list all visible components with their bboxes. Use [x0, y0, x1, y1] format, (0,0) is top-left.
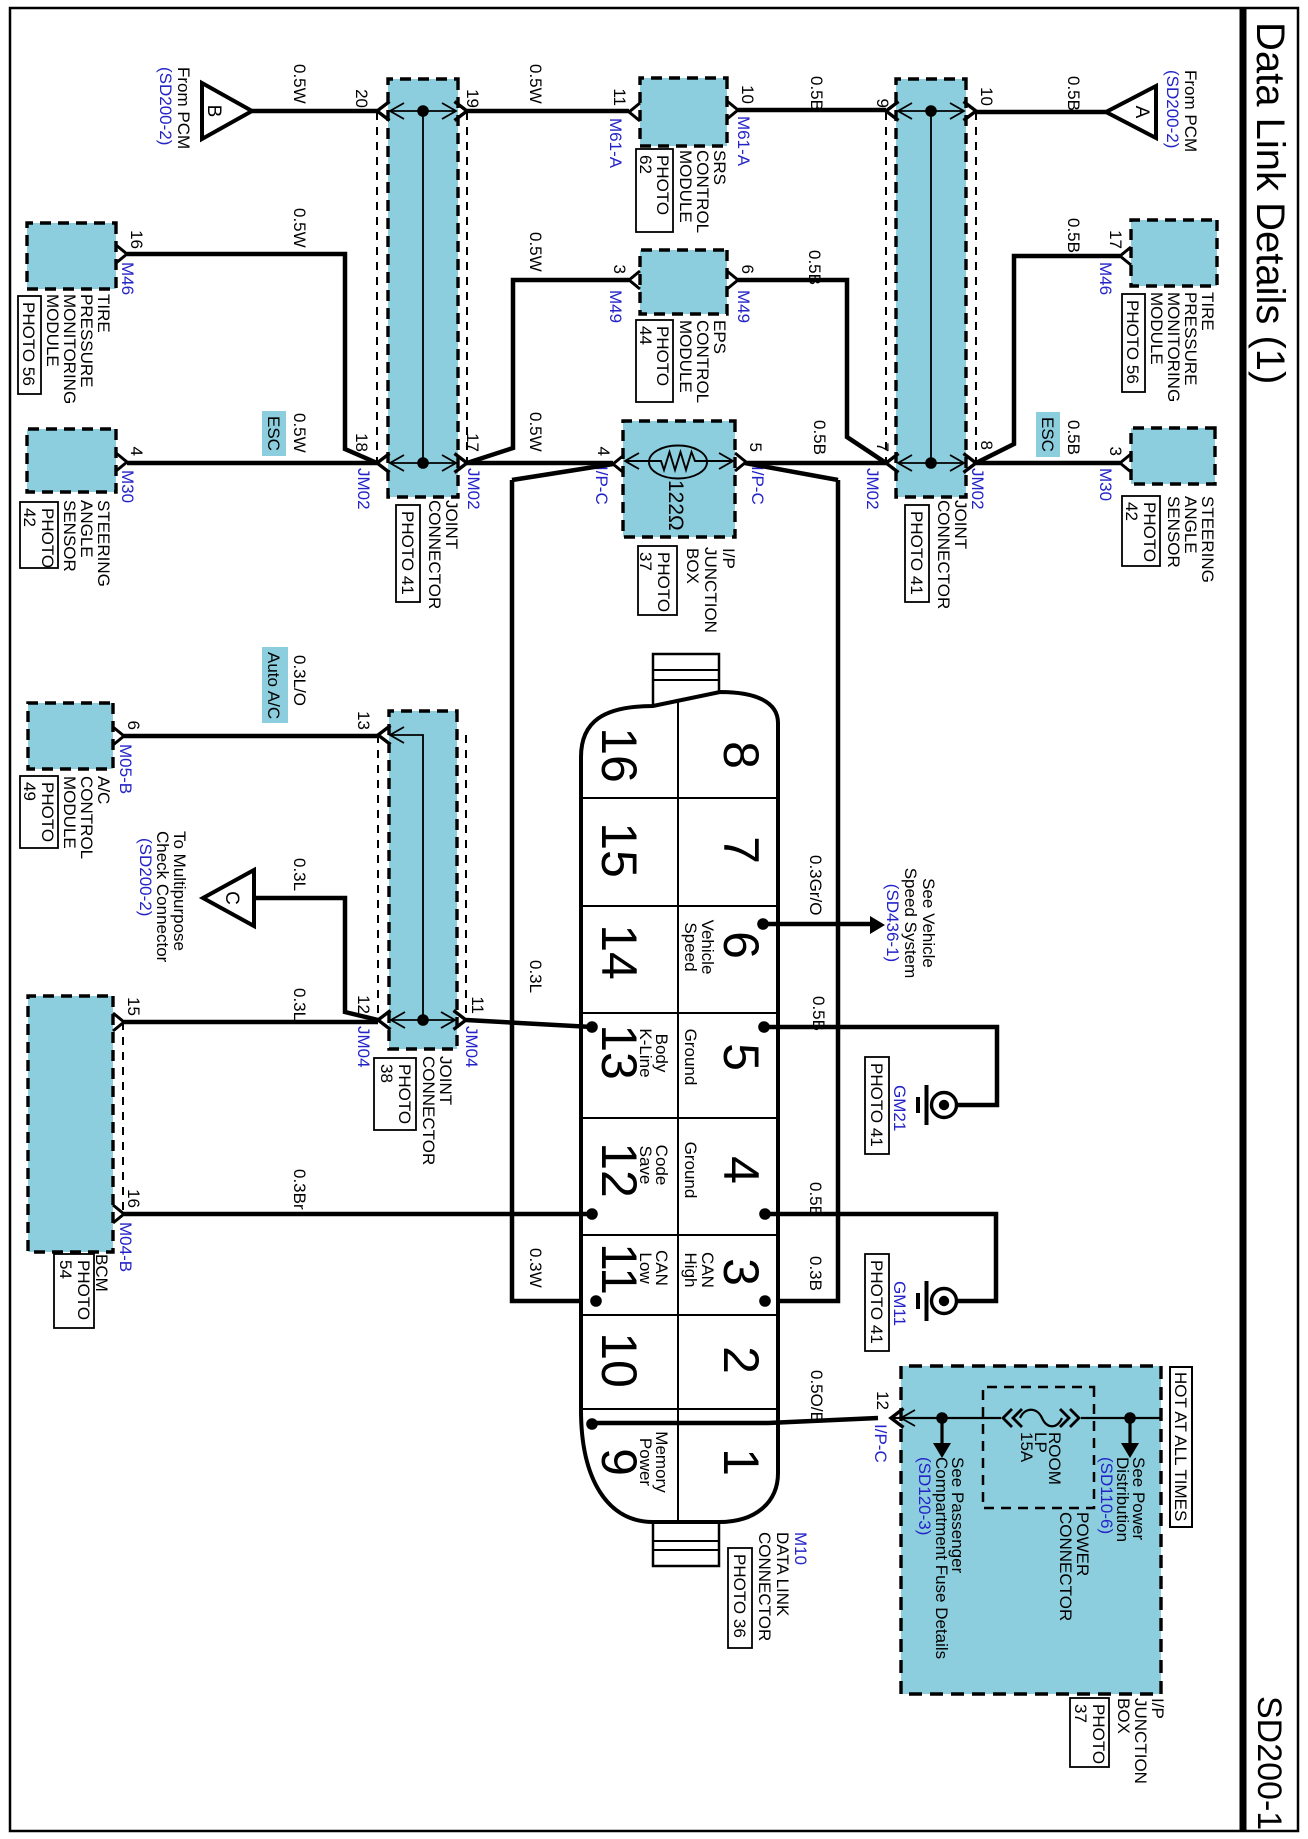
node power dot 2: [1124, 1412, 1136, 1424]
svg-text:0.5W: 0.5W: [526, 232, 545, 272]
wire I/P-C pin 5 to CAN high run: [745, 463, 838, 480]
wire JM02 pin 17 to I/P-C pin 4: [467, 461, 613, 466]
svg-text:Save: Save: [636, 1146, 655, 1185]
wire BCM pin 15 to JM04 pin 12: [124, 1020, 378, 1025]
svg-text:0.5B: 0.5B: [806, 1182, 825, 1217]
JM02 left pin 19 chevron: [455, 102, 468, 121]
svg-text:DATA LINK: DATA LINK: [773, 1532, 792, 1617]
svg-text:JM02: JM02: [464, 468, 483, 510]
svg-text:9: 9: [873, 99, 892, 108]
node power dot 1: [936, 1412, 948, 1424]
svg-text:SENSOR: SENSOR: [1164, 496, 1183, 568]
svg-text:Data Link Details (1): Data Link Details (1): [1248, 22, 1292, 384]
JM02 left junction dot (pins 18/17): [417, 457, 429, 469]
JM02 left pin 20 chevron: [377, 102, 390, 121]
data link connector M10 right tab: [653, 1518, 719, 1566]
fuse chevron marks lower: [1003, 1409, 1012, 1427]
svg-text:C: C: [221, 891, 242, 905]
svg-text:17: 17: [1106, 230, 1125, 249]
module M05-B A/C control module: [28, 703, 113, 769]
svg-text:0.3L: 0.3L: [526, 960, 545, 993]
svg-text:42: 42: [1122, 502, 1141, 521]
wire I/P-C pin 4 to CAN low run: [512, 464, 613, 480]
svg-text:CONNECTOR: CONNECTOR: [425, 500, 444, 609]
joint connector JM02 (right) outer dashed lines: [975, 112, 977, 463]
svg-text:6: 6: [124, 721, 143, 730]
node pin 5 dot: [758, 1021, 770, 1033]
wire CAN high bus run: [765, 480, 838, 1301]
svg-text:18: 18: [352, 433, 371, 452]
JM02 right pin 7 chevron: [886, 454, 899, 473]
M46 right pin 17 chevron: [1120, 247, 1131, 265]
wire JM04 pin 11 to M10 pin 13: [466, 1020, 592, 1027]
label PHOTO 49 box: [20, 776, 58, 848]
svg-text:M46: M46: [1096, 262, 1115, 295]
label PHOTO 56 box (left): [18, 296, 41, 394]
svg-text:M10: M10: [791, 1532, 810, 1565]
JM02 left junction dot (pins 20/19): [417, 105, 429, 117]
svg-text:PHOTO 56: PHOTO 56: [19, 302, 38, 386]
node pin 6 dot: [757, 918, 769, 930]
svg-text:GM21: GM21: [890, 1085, 909, 1131]
svg-text:0.5W: 0.5W: [526, 412, 545, 452]
ground GM11 symbol: [932, 1289, 957, 1314]
fuse box dashed rect: [983, 1387, 1094, 1508]
svg-text:37: 37: [1071, 1704, 1090, 1723]
svg-text:PHOTO: PHOTO: [38, 782, 57, 842]
data link connector M10 outline: [581, 692, 778, 1522]
svg-text:GM11: GM11: [890, 1281, 909, 1326]
wire memory power to I/P-C pin 12: [592, 1418, 878, 1423]
BCM pin 15 chevron: [113, 1013, 124, 1031]
JM04 pin 13 chevron: [378, 726, 391, 745]
fuse chevron marks upper: [1070, 1409, 1079, 1427]
joint connector JM02 (left) cyan bar: [388, 79, 458, 497]
svg-text:BOX: BOX: [683, 548, 702, 584]
module M04-B BCM: [28, 996, 113, 1252]
wire vehicle speed branch: [763, 922, 870, 927]
svg-text:M30: M30: [1096, 468, 1115, 501]
label PHOTO 56 box (right): [1122, 294, 1145, 392]
module M46 tire pressure monitoring (left): [27, 223, 116, 289]
M10 center divider: [677, 700, 679, 1522]
wire CAN low bus run: [512, 480, 596, 1301]
joint connector JM04 outer dashed lines: [465, 735, 467, 1020]
wire SRS pin 10 to JM02 right pin 9: [738, 108, 886, 113]
fuse element: [1020, 1410, 1062, 1427]
svg-text:2: 2: [713, 1346, 769, 1374]
svg-text:16: 16: [127, 230, 146, 249]
svg-text:1: 1: [713, 1448, 769, 1476]
svg-text:(SD120-3): (SD120-3): [915, 1457, 934, 1535]
svg-text:A: A: [1131, 106, 1152, 119]
svg-text:I/P-C: I/P-C: [748, 466, 767, 505]
SRS pin 10 chevron: [727, 101, 738, 119]
svg-text:From PCM: From PCM: [174, 67, 193, 149]
svg-text:JM02: JM02: [354, 468, 373, 510]
svg-text:PHOTO: PHOTO: [395, 1064, 414, 1124]
svg-text:14: 14: [591, 924, 647, 980]
svg-text:4: 4: [127, 447, 146, 456]
svg-text:3: 3: [610, 265, 629, 274]
wire BCM pin 16 to M10 pin 12: [124, 1212, 592, 1217]
svg-text:0.5O/B: 0.5O/B: [807, 1370, 826, 1423]
svg-text:0.5B: 0.5B: [805, 250, 824, 285]
node pin 12 dot: [586, 1208, 598, 1220]
svg-text:0.5W: 0.5W: [290, 208, 309, 248]
label PHOTO 36 box: [728, 1548, 752, 1648]
BCM pin 16 chevron: [113, 1205, 124, 1223]
svg-text:4: 4: [713, 1156, 769, 1184]
I/P-C pin 5 chevron: [735, 453, 746, 471]
svg-text:0.3B: 0.3B: [806, 1256, 825, 1291]
svg-text:(SD200-2): (SD200-2): [156, 67, 175, 145]
svg-text:0.5W: 0.5W: [290, 413, 309, 453]
svg-text:19: 19: [463, 89, 482, 108]
label PHOTO 41 box (GM21): [865, 1057, 889, 1154]
svg-text:MODULE: MODULE: [1147, 292, 1166, 365]
svg-text:Low: Low: [636, 1252, 655, 1284]
svg-text:I/P: I/P: [719, 548, 738, 569]
svg-text:PHOTO 41: PHOTO 41: [867, 1260, 886, 1344]
svg-text:6: 6: [738, 265, 757, 274]
svg-text:3: 3: [713, 1258, 769, 1286]
module M46 tire pressure monitoring (right): [1131, 220, 1217, 286]
svg-text:PHOTO 41: PHOTO 41: [398, 511, 417, 595]
resistor R 122 ohm ellipse: [649, 446, 707, 479]
joint connector JM02 (right) cyan bar: [896, 79, 966, 497]
wire JM02 pin 19 to SRS pin 11: [467, 109, 629, 114]
wire M30 left pin 4 to JM02 pin 18: [127, 461, 377, 466]
svg-text:PHOTO 41: PHOTO 41: [867, 1063, 886, 1147]
svg-text:M04-B: M04-B: [116, 1222, 135, 1272]
svg-text:20: 20: [352, 89, 371, 108]
JM02 right junction dot (pins 7/8): [925, 457, 937, 469]
module M30 steering angle sensor (right): [1131, 428, 1215, 484]
I/P junction box with 122 ohm resistor: [623, 421, 735, 537]
svg-text:(SD200-2): (SD200-2): [136, 838, 155, 916]
wire triangle C to JM04 pin 12: [254, 898, 378, 1020]
wire EPS pin 3 to JM02 pin 17: [467, 280, 629, 463]
JM02 right pin 9 internal arrow: [899, 110, 963, 112]
JM02 right junction dot (pins 9/10): [925, 105, 937, 117]
JM02 right pin 7 internal arrow: [899, 462, 963, 464]
svg-text:0.3Gr/O: 0.3Gr/O: [806, 855, 825, 915]
svg-text:10: 10: [738, 85, 757, 104]
ground GM21 symbol: [932, 1093, 957, 1118]
svg-text:M46: M46: [118, 262, 137, 295]
wire A/C pin 6 to JM04 pin 13: [124, 734, 378, 739]
svg-text:M05-B: M05-B: [116, 744, 135, 794]
M30 right pin 3 chevron: [1120, 454, 1131, 472]
connector triangle A from PCM: [1106, 86, 1156, 138]
node memory power dot: [586, 1418, 598, 1430]
JM02 right pin 9 chevron: [886, 102, 899, 121]
wire EPS pin 6 to JM02 right pin 7: [738, 280, 886, 463]
I/P-C pin 4 chevron: [613, 455, 624, 473]
svg-text:16: 16: [591, 727, 647, 783]
wire I/P-C pin 5 to JM02 right pin 7: [746, 461, 886, 466]
wire M46 left pin 16 to JM02 pin 18: [127, 254, 377, 463]
branch arrow to power distribution: [1128, 1418, 1131, 1444]
svg-text:From PCM: From PCM: [1181, 70, 1200, 152]
svg-text:JM04: JM04: [354, 1026, 373, 1068]
svg-text:15: 15: [591, 822, 647, 878]
wire triangle B to JM02 pin 20: [252, 109, 377, 114]
svg-text:I/P-C: I/P-C: [592, 466, 611, 505]
JM02 right internal bus line: [930, 111, 932, 463]
SRS pin 11 chevron: [629, 103, 640, 121]
I/P-C pin 12 chevron: [891, 1409, 904, 1428]
svg-text:M49: M49: [734, 290, 753, 323]
M46 left pin 16 chevron: [116, 245, 127, 263]
label PHOTO 42 box (right): [1122, 496, 1160, 566]
JM02 left pin 18 chevron: [377, 454, 390, 473]
svg-text:0.5B: 0.5B: [807, 76, 826, 111]
svg-text:CONNECTOR: CONNECTOR: [419, 1056, 438, 1165]
module M49 EPS control module: [640, 250, 727, 314]
svg-text:(SD436-1): (SD436-1): [883, 884, 902, 962]
svg-text:PHOTO: PHOTO: [1089, 1704, 1108, 1764]
label PHOTO 44 box: [636, 320, 673, 402]
A/C pin 6 chevron: [113, 727, 124, 745]
svg-text:PHOTO: PHOTO: [74, 1260, 93, 1320]
connector triangle C to multipurpose check connector: [203, 870, 254, 926]
M10 cell grid vertical lines: [581, 797, 778, 799]
svg-text:PHOTO: PHOTO: [38, 508, 57, 568]
resistor zigzag: [649, 452, 707, 470]
svg-text:0.3L: 0.3L: [290, 858, 309, 891]
label PHOTO 42 box (left): [20, 502, 58, 568]
svg-text:0.3L/O: 0.3L/O: [290, 655, 309, 706]
wire pin 5 to ground GM21: [764, 1027, 997, 1105]
svg-text:54: 54: [56, 1260, 75, 1279]
svg-text:38: 38: [377, 1064, 396, 1083]
svg-text:0.5B: 0.5B: [1064, 76, 1083, 111]
label PHOTO 37 box (power): [1070, 1698, 1109, 1767]
svg-text:Power: Power: [636, 1438, 655, 1487]
data link connector M10 left tab: [653, 654, 719, 707]
svg-text:(SD200-2): (SD200-2): [1163, 70, 1182, 148]
svg-text:17: 17: [463, 433, 482, 452]
JM04 pin 12/11 internal arrow: [392, 1019, 454, 1021]
svg-text:4: 4: [594, 447, 613, 456]
JM04 pin 11 chevron: [454, 1011, 467, 1030]
svg-text:MODULE: MODULE: [676, 320, 695, 393]
svg-text:SENSOR: SENSOR: [60, 500, 79, 572]
svg-text:0.5B: 0.5B: [1064, 218, 1083, 253]
svg-text:Auto A/C: Auto A/C: [264, 652, 283, 719]
module M61-A SRS control module: [640, 78, 727, 146]
resistor R 122 ohm internal line: [706, 460, 732, 462]
svg-text:0.3W: 0.3W: [526, 1248, 545, 1288]
svg-text:0.5B: 0.5B: [1064, 420, 1083, 455]
node pin 13 dot: [586, 1021, 598, 1033]
svg-text:PHOTO 41: PHOTO 41: [907, 511, 926, 595]
label ESC highlight (right): [1036, 412, 1060, 457]
svg-text:10: 10: [977, 87, 996, 106]
svg-text:62: 62: [636, 155, 655, 174]
svg-text:M61-A: M61-A: [734, 116, 753, 167]
svg-text:K-Line: K-Line: [636, 1028, 655, 1077]
JM02 left pin 20 internal arrow: [391, 110, 455, 112]
svg-text:MODULE: MODULE: [676, 150, 695, 223]
svg-text:8: 8: [977, 441, 996, 450]
svg-text:CONNECTOR: CONNECTOR: [755, 1532, 774, 1641]
svg-text:JM02: JM02: [863, 468, 882, 510]
svg-text:0.5W: 0.5W: [526, 64, 545, 104]
svg-text:0.3Br: 0.3Br: [290, 1169, 309, 1210]
svg-text:PHOTO: PHOTO: [1140, 502, 1159, 562]
wire M46 right pin 17 to JM02 right pin 8: [976, 256, 1120, 463]
label PHOTO 41 box (JM02 right): [905, 505, 929, 602]
title separator line: [1240, 9, 1247, 1830]
svg-text:11: 11: [468, 996, 487, 1014]
connector triangle B from PCM: [202, 83, 252, 139]
label ESC highlight (left): [262, 411, 286, 456]
wire triangle A to JM02 right pin 10: [976, 110, 1106, 115]
svg-text:0.5B: 0.5B: [809, 996, 828, 1031]
power feed wire: [893, 1417, 1001, 1419]
label PHOTO 54 box: [54, 1254, 94, 1328]
svg-text:0.5W: 0.5W: [290, 64, 309, 104]
svg-text:7: 7: [873, 443, 892, 452]
svg-text:5: 5: [746, 443, 765, 452]
svg-text:CONNECTOR: CONNECTOR: [934, 500, 953, 609]
svg-text:5: 5: [713, 1043, 769, 1071]
M30 left pin 4 chevron: [116, 453, 127, 471]
svg-text:Ground: Ground: [681, 1029, 700, 1086]
svg-text:M61-A: M61-A: [606, 118, 625, 169]
svg-text:(SD110-6): (SD110-6): [1097, 1457, 1116, 1534]
JM04 pin 12 chevron: [378, 1011, 391, 1030]
JM02 left internal bus line: [422, 111, 424, 463]
svg-text:49: 49: [20, 782, 39, 801]
JM02 right pin 10 chevron: [964, 102, 977, 121]
svg-text:13: 13: [354, 711, 373, 730]
svg-text:M49: M49: [606, 290, 625, 323]
svg-text:37: 37: [636, 552, 655, 571]
svg-text:44: 44: [636, 326, 655, 345]
svg-text:Speed: Speed: [681, 922, 700, 971]
label Auto A/C highlight: [262, 647, 288, 723]
label PHOTO 41 box (GM11): [865, 1254, 889, 1351]
svg-text:Speed System: Speed System: [901, 868, 920, 979]
node pin 4 dot: [759, 1208, 771, 1220]
svg-text:6: 6: [713, 931, 769, 959]
label PHOTO 41 box (JM02 left): [396, 505, 420, 602]
svg-text:12: 12: [354, 995, 373, 1014]
JM04 junction dot: [417, 1014, 429, 1026]
label PHOTO 37 box (resistor): [638, 546, 677, 615]
arrow to vehicle speed system: [870, 916, 885, 934]
svg-text:PHOTO 36: PHOTO 36: [730, 1554, 749, 1638]
svg-text:15: 15: [124, 997, 143, 1016]
svg-text:3: 3: [1106, 447, 1125, 456]
wire M30 right pin 3 to JM02 right pin 8: [976, 461, 1120, 466]
svg-text:CONNECTOR: CONNECTOR: [1056, 1512, 1075, 1621]
svg-text:PHOTO: PHOTO: [654, 552, 673, 612]
svg-text:MODULE: MODULE: [60, 776, 79, 849]
JM02 left pin 17 chevron: [455, 454, 468, 473]
svg-text:BOX: BOX: [1114, 1698, 1133, 1734]
svg-text:M30: M30: [118, 470, 137, 503]
svg-text:10: 10: [591, 1332, 647, 1388]
svg-text:See Vehicle: See Vehicle: [919, 878, 938, 968]
label HOT AT ALL TIMES: [1170, 1367, 1192, 1527]
svg-text:15A: 15A: [1017, 1432, 1036, 1463]
svg-text:42: 42: [20, 508, 39, 527]
svg-text:B: B: [203, 105, 224, 118]
joint connector JM04 cyan bar: [389, 711, 457, 1049]
JM02 right pin 8 chevron: [964, 454, 977, 473]
svg-text:PHOTO 56: PHOTO 56: [1123, 300, 1142, 384]
node pin 3 dot: [759, 1295, 771, 1307]
svg-text:122Ω: 122Ω: [664, 480, 687, 531]
joint connector JM02 (left) outer dashed lines: [466, 112, 468, 463]
branch arrow to passenger fuse details: [940, 1418, 943, 1444]
svg-text:0.5B: 0.5B: [810, 420, 829, 455]
svg-text:JM04: JM04: [462, 1026, 481, 1068]
I/P junction box power cyan box: [901, 1366, 1161, 1694]
svg-text:HOT AT ALL TIMES: HOT AT ALL TIMES: [1171, 1372, 1190, 1521]
svg-text:SD200-1: SD200-1: [1250, 1696, 1288, 1830]
BCM pin face dashed line: [122, 1022, 124, 1214]
svg-text:16: 16: [124, 1189, 143, 1208]
svg-text:12: 12: [873, 1391, 892, 1410]
svg-text:ESC: ESC: [1038, 417, 1057, 452]
EPS pin 6 chevron: [727, 271, 738, 289]
svg-text:ESC: ESC: [264, 416, 283, 451]
svg-text:High: High: [681, 1253, 700, 1288]
JM04 internal bus line: [391, 735, 423, 1020]
JM02 left pin 18 internal arrow: [391, 462, 455, 464]
label PHOTO 38 box: [374, 1058, 416, 1130]
svg-text:I/P-C: I/P-C: [871, 1424, 890, 1463]
svg-text:8: 8: [713, 741, 769, 769]
module M30 steering angle sensor (left): [27, 429, 116, 492]
node pin 11 dot: [590, 1295, 602, 1307]
svg-text:0.3L: 0.3L: [290, 988, 309, 1021]
svg-text:7: 7: [713, 836, 769, 864]
svg-text:Ground: Ground: [681, 1142, 700, 1199]
svg-text:JUNCTION: JUNCTION: [701, 547, 720, 633]
wire pin 4 to ground GM11: [765, 1214, 996, 1301]
svg-text:MODULE: MODULE: [43, 294, 62, 367]
EPS pin 3 chevron: [629, 271, 640, 289]
svg-text:11: 11: [610, 88, 629, 106]
label PHOTO 62 box: [636, 149, 673, 232]
